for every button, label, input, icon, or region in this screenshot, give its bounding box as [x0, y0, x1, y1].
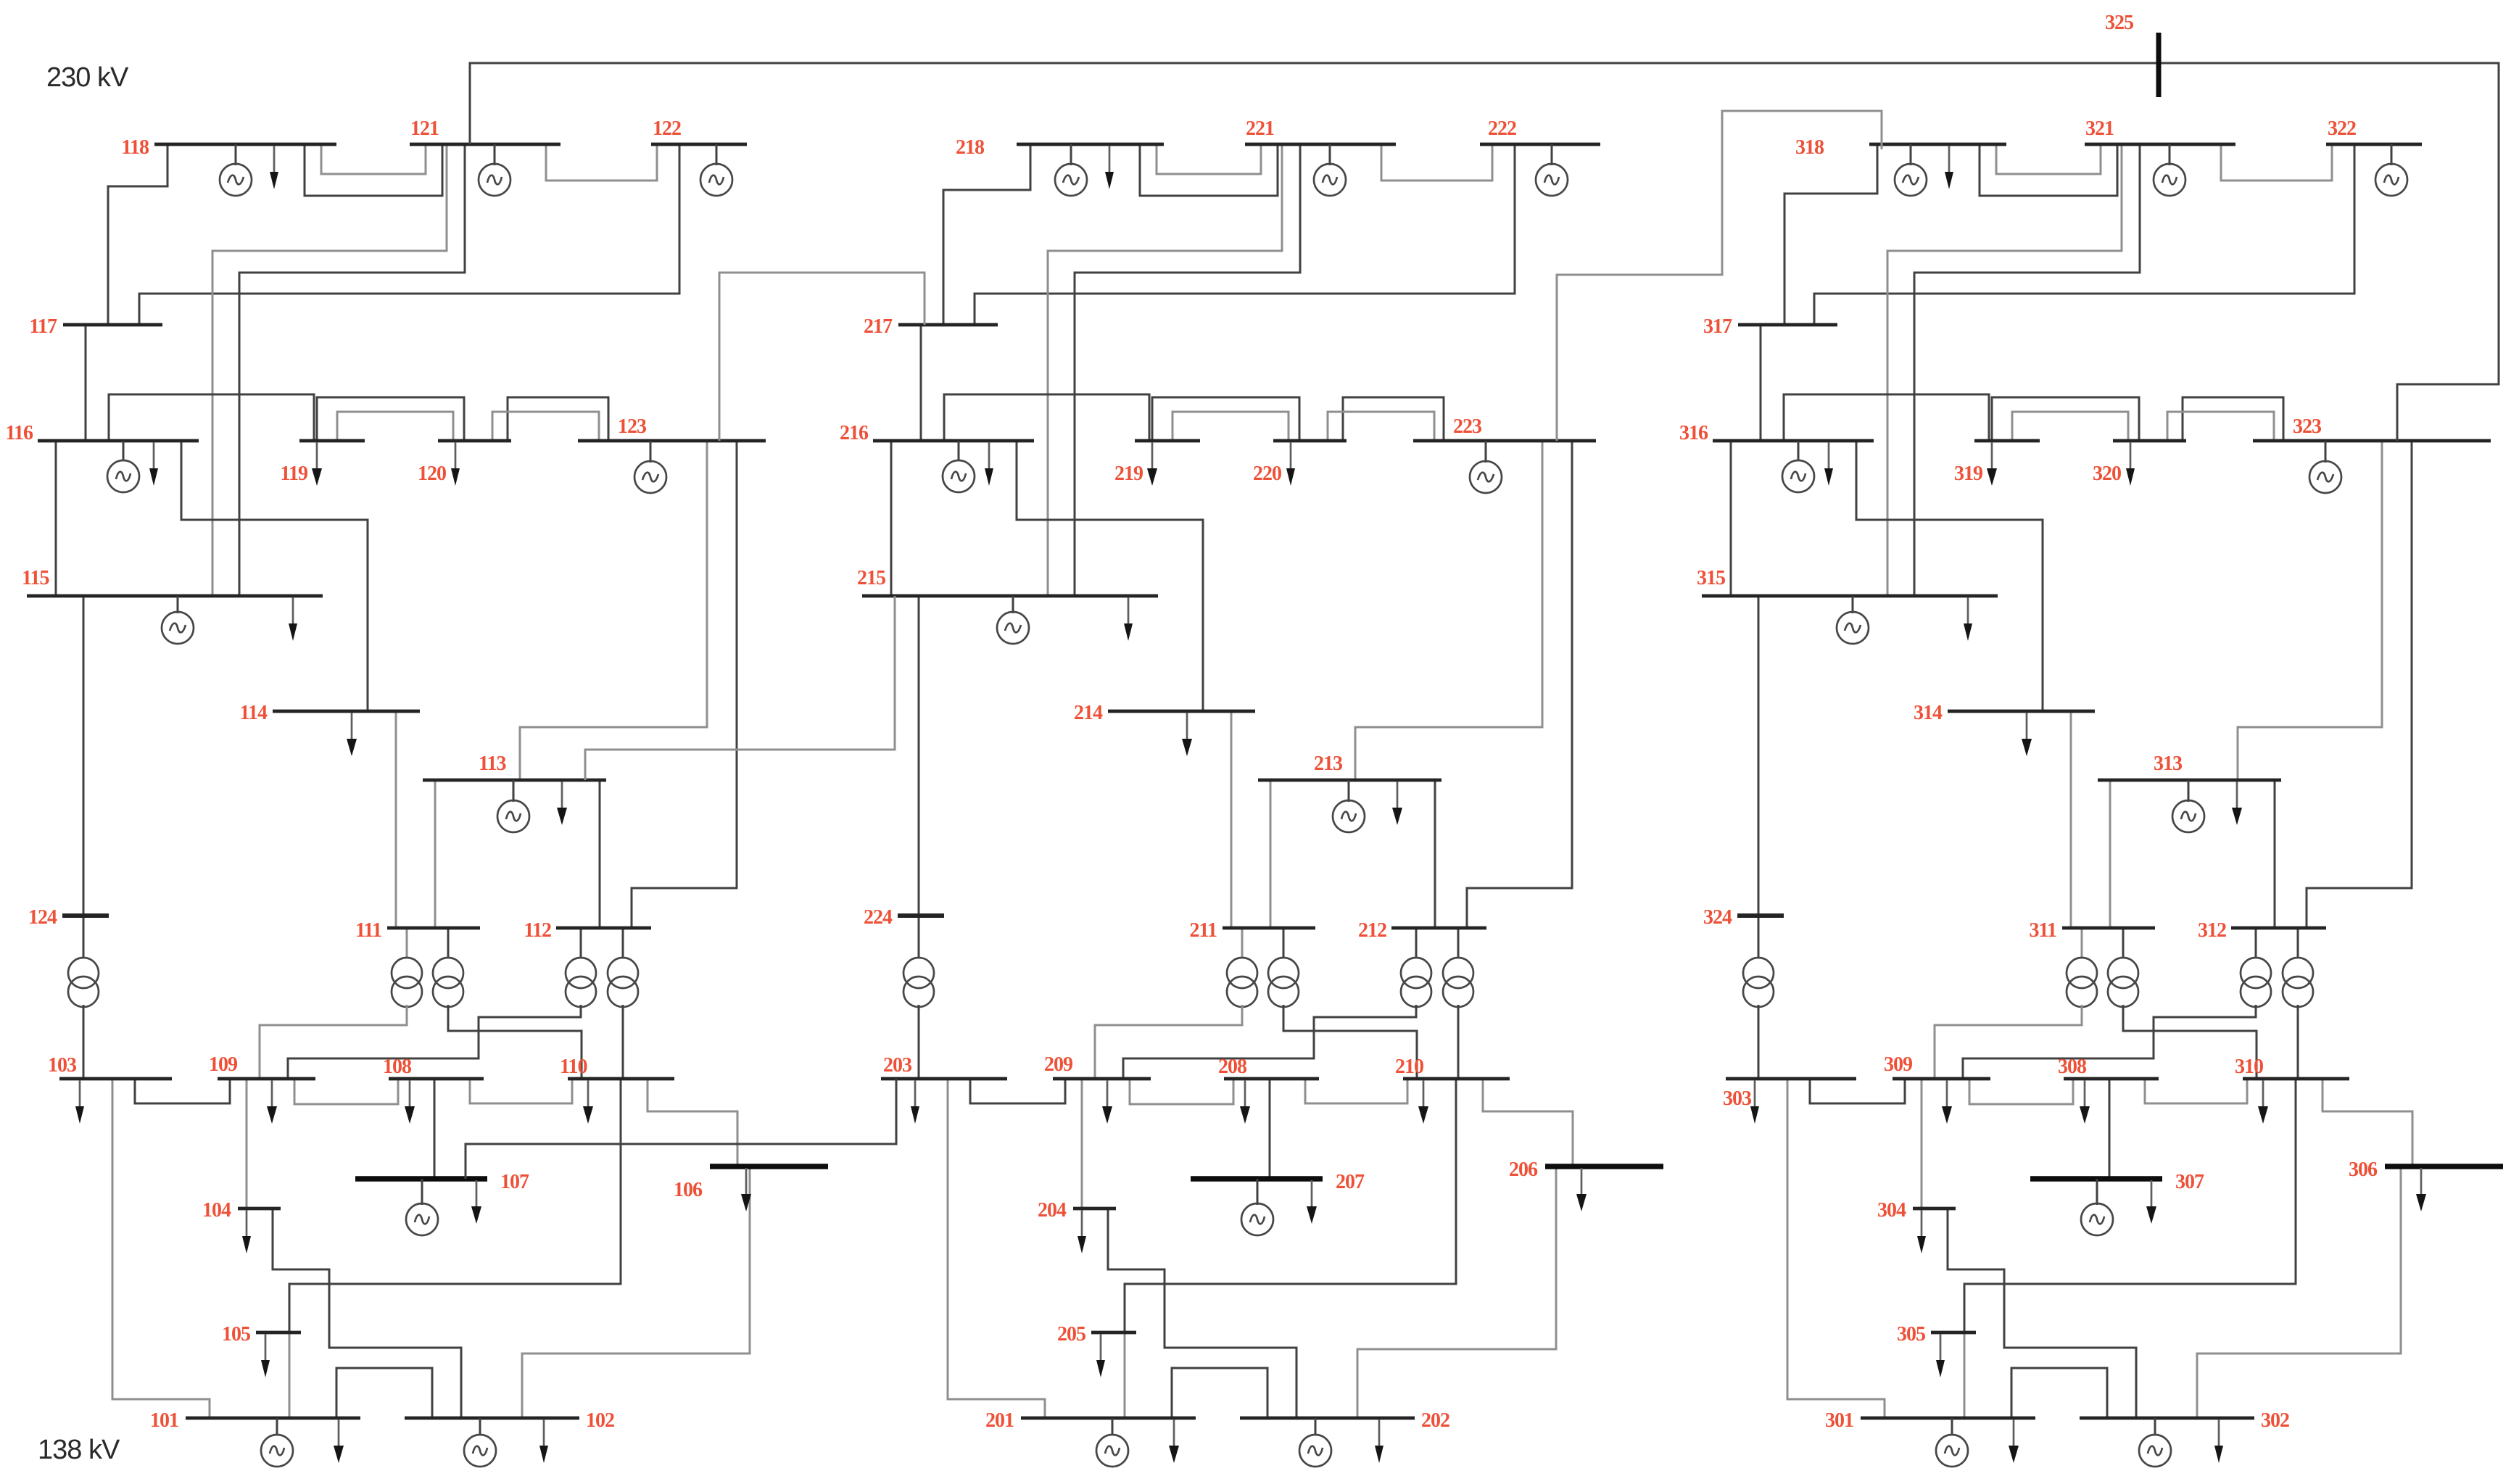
- bus 111: [355, 919, 480, 942]
- transformer 210-212: [1443, 928, 1473, 1079]
- svg-text:215: 215: [857, 567, 885, 589]
- load at bus 219: [1147, 442, 1157, 486]
- transformer 109-112: [288, 928, 596, 1079]
- bus 306: [2349, 1158, 2503, 1181]
- wire 217-222: [975, 144, 1515, 325]
- load at bus 315: [1964, 597, 1972, 641]
- bus 207: [1191, 1171, 1365, 1193]
- svg-text:230 kV: 230 kV: [46, 62, 129, 93]
- wire 217-218: [943, 144, 1030, 325]
- svg-text:115: 115: [22, 567, 49, 589]
- svg-text:308: 308: [2058, 1056, 2087, 1078]
- svg-text:116: 116: [6, 422, 33, 444]
- svg-text:207: 207: [1336, 1171, 1365, 1193]
- svg-text:202: 202: [1421, 1409, 1449, 1432]
- generator at bus 215: [997, 596, 1029, 644]
- wire 120-123 circuit 1: [508, 397, 608, 441]
- svg-text:302: 302: [2261, 1409, 2289, 1432]
- transformer 209-212: [1123, 928, 1431, 1079]
- wire 101-103: [112, 1079, 210, 1418]
- wire 111-113: [434, 780, 437, 928]
- load at bus 107: [471, 1180, 481, 1224]
- load at bus 102: [539, 1419, 548, 1463]
- wire 119-120 circuit 2: [337, 412, 453, 441]
- svg-text:123: 123: [618, 415, 647, 438]
- svg-text:211: 211: [1190, 919, 1217, 942]
- generator at bus 302: [2139, 1418, 2171, 1467]
- wire 305-310: [1964, 1079, 2296, 1332]
- transformer 309-312: [1963, 928, 2271, 1079]
- svg-text:208: 208: [1218, 1056, 1247, 1078]
- wire 201-203: [948, 1079, 1045, 1418]
- wire 213-223: [1355, 441, 1542, 780]
- bus 122: [651, 117, 747, 144]
- bus 114: [240, 702, 420, 724]
- wire 103-109: [135, 1079, 230, 1103]
- svg-text:321: 321: [2085, 117, 2114, 140]
- wire 117-122: [139, 144, 679, 325]
- tie line 123-217: [719, 273, 925, 441]
- bus 217: [864, 315, 998, 338]
- svg-text:324: 324: [1703, 906, 1732, 929]
- wire 105-110: [289, 1079, 621, 1332]
- generator at bus 101: [261, 1418, 293, 1467]
- wire 318-321 circuit 2: [1980, 144, 2117, 196]
- svg-text:108: 108: [383, 1056, 412, 1078]
- generator at bus 107: [406, 1179, 438, 1235]
- wire 304-309: [1921, 1079, 1923, 1209]
- load at bus 318: [1945, 146, 1953, 189]
- wire 102-104: [273, 1209, 461, 1418]
- wire 308-310: [2145, 1079, 2247, 1103]
- bus 214: [1074, 702, 1255, 724]
- bus 104: [202, 1199, 281, 1222]
- load at bus 207: [1307, 1180, 1317, 1224]
- load at bus 215: [1124, 597, 1133, 641]
- wire 318-321 circuit 1: [1996, 144, 2101, 174]
- svg-text:111: 111: [355, 919, 381, 942]
- load at bus 301: [2009, 1419, 2019, 1463]
- generator at bus 207: [1241, 1179, 1273, 1235]
- wire 320-323 circuit 1: [2183, 397, 2283, 441]
- wire 101-102: [336, 1368, 432, 1418]
- svg-text:311: 311: [2030, 919, 2056, 942]
- wire 216-217: [920, 325, 922, 441]
- bus 109: [209, 1053, 315, 1079]
- tie line 107-203: [466, 1079, 896, 1179]
- wire 301-303: [1787, 1079, 1885, 1418]
- bus 210: [1395, 1056, 1510, 1079]
- bus 211: [1190, 919, 1315, 942]
- svg-text:206: 206: [1509, 1158, 1538, 1181]
- bus 219: [1114, 441, 1200, 485]
- load at bus 220: [1286, 442, 1295, 486]
- wire 107-108: [434, 1079, 436, 1179]
- wire 219-220 circuit 1: [1152, 397, 1299, 441]
- wire 308-309: [1969, 1079, 2073, 1104]
- bus 303: [1723, 1079, 1856, 1110]
- bus 220: [1253, 441, 1347, 485]
- bus 106: [674, 1166, 828, 1201]
- wire 301-305: [1964, 1332, 1966, 1418]
- wire 315-324: [1758, 596, 1760, 916]
- load at bus 101: [334, 1419, 344, 1463]
- load at bus 303: [1750, 1080, 1759, 1124]
- bus 315: [1697, 567, 1998, 596]
- wire 115-124: [83, 596, 85, 916]
- wire 303-309: [1810, 1079, 1905, 1103]
- transformer 309-311: [1935, 928, 2097, 1079]
- wire 307-308: [2109, 1079, 2111, 1179]
- bus 208: [1218, 1056, 1319, 1079]
- svg-text:217: 217: [864, 315, 893, 338]
- wire 208-210: [1305, 1079, 1407, 1103]
- wire 201-202: [1172, 1368, 1267, 1418]
- wire 215-224: [918, 596, 920, 916]
- svg-text:204: 204: [1038, 1199, 1067, 1222]
- load at bus 115: [289, 597, 297, 641]
- bus 301: [1825, 1409, 2035, 1432]
- bus 320: [2093, 441, 2186, 485]
- transformer 203-224: [903, 916, 934, 1079]
- bus 317: [1703, 315, 1837, 338]
- svg-text:214: 214: [1074, 702, 1103, 724]
- svg-text:117: 117: [30, 315, 57, 338]
- wire 219-220 circuit 2: [1172, 412, 1289, 441]
- generator at bus 118: [220, 144, 252, 196]
- tie line 223-318: [1557, 111, 1882, 441]
- bus 310: [2235, 1056, 2349, 1079]
- load at bus 108: [405, 1080, 415, 1124]
- svg-text:113: 113: [479, 753, 506, 775]
- svg-text:210: 210: [1395, 1056, 1423, 1078]
- generator at bus 318: [1895, 144, 1927, 196]
- wire 319-320 circuit 1: [1992, 397, 2139, 441]
- load at bus 302: [2214, 1419, 2223, 1463]
- svg-text:213: 213: [1314, 753, 1343, 775]
- wire 117-118: [108, 144, 167, 325]
- svg-text:314: 314: [1914, 702, 1943, 724]
- wire 206-210: [1483, 1079, 1573, 1166]
- bus 102: [405, 1409, 614, 1432]
- bus 213: [1258, 753, 1442, 780]
- generator at bus 323: [2309, 441, 2341, 493]
- svg-text:105: 105: [222, 1323, 250, 1346]
- wire 114-116: [181, 441, 368, 711]
- wire 112-113: [599, 780, 601, 928]
- svg-text:205: 205: [1057, 1323, 1085, 1346]
- wire 116-117: [85, 325, 87, 441]
- wire 302-306: [2197, 1166, 2401, 1418]
- bus 113: [423, 753, 606, 780]
- generator at bus 102: [464, 1418, 496, 1467]
- bus 119: [281, 441, 365, 485]
- bus 323: [2253, 415, 2491, 441]
- bus 110: [560, 1056, 674, 1079]
- wire 202-206: [1357, 1166, 1556, 1418]
- svg-text:110: 110: [560, 1056, 587, 1078]
- wire 108-109: [294, 1079, 398, 1104]
- svg-text:221: 221: [1246, 117, 1274, 140]
- generator at bus 201: [1096, 1418, 1128, 1467]
- bus 222: [1480, 117, 1600, 144]
- load at bus 120: [451, 442, 460, 486]
- svg-text:222: 222: [1488, 117, 1516, 140]
- load at bus 218: [1105, 146, 1114, 189]
- transformer 110-112: [608, 928, 638, 1079]
- bus 105: [222, 1323, 301, 1346]
- load at bus 320: [2126, 442, 2135, 486]
- svg-text:107: 107: [500, 1171, 529, 1193]
- wire 102-106: [522, 1166, 750, 1418]
- generator at bus 218: [1055, 144, 1087, 196]
- load at bus 319: [1987, 442, 1997, 486]
- bus 223: [1413, 415, 1596, 441]
- bus 224: [864, 906, 944, 929]
- svg-text:120: 120: [418, 463, 446, 485]
- transformer 310-311: [2108, 928, 2257, 1079]
- bus 309: [1884, 1053, 1990, 1079]
- svg-text:114: 114: [240, 702, 268, 724]
- wire 215-221 circuit 2: [1075, 144, 1300, 596]
- load at bus 204: [1077, 1210, 1086, 1253]
- load at bus 114: [347, 713, 357, 756]
- bus 307: [2030, 1171, 2204, 1193]
- load at bus 313: [2232, 782, 2242, 825]
- generator at bus 122: [700, 144, 732, 196]
- wire 306-310: [2322, 1079, 2412, 1166]
- svg-text:301: 301: [1825, 1409, 1853, 1432]
- generator at bus 301: [1936, 1418, 1968, 1467]
- wire 208-209: [1130, 1079, 1233, 1104]
- generator at bus 121: [479, 144, 510, 196]
- bus 324: [1703, 906, 1784, 929]
- transformer 310-312: [2283, 928, 2313, 1079]
- wire 112-123: [632, 441, 737, 928]
- svg-text:304: 304: [1877, 1199, 1906, 1222]
- bus 316: [1679, 422, 1874, 444]
- svg-text:122: 122: [653, 117, 681, 140]
- load at bus 310: [2258, 1080, 2268, 1124]
- load at bus 216: [985, 442, 993, 486]
- wire 205-210: [1125, 1079, 1456, 1332]
- wire 221-222: [1381, 144, 1492, 181]
- svg-text:118: 118: [122, 136, 149, 159]
- wire 302-304: [1948, 1209, 2136, 1418]
- svg-text:316: 316: [1679, 422, 1708, 444]
- bus 322: [2326, 117, 2422, 144]
- transformer 110-111: [433, 928, 582, 1079]
- wire 312-313: [2274, 780, 2276, 928]
- bus 313: [2098, 753, 2281, 780]
- wire 108-110: [470, 1079, 572, 1103]
- generator at bus 115: [162, 596, 194, 644]
- svg-text:305: 305: [1897, 1323, 1925, 1346]
- load at bus 308: [2080, 1080, 2090, 1124]
- svg-text:106: 106: [674, 1179, 703, 1201]
- load at bus 113: [557, 782, 567, 825]
- svg-text:312: 312: [2198, 919, 2226, 942]
- wire 203-209: [970, 1079, 1065, 1103]
- svg-text:119: 119: [281, 463, 307, 485]
- bus 103: [48, 1054, 172, 1079]
- wire 315-316: [1730, 441, 1732, 596]
- wire 316-319: [1784, 394, 1989, 441]
- load at bus 109: [267, 1080, 277, 1124]
- load at bus 314: [2022, 713, 2032, 756]
- svg-text:104: 104: [202, 1199, 231, 1222]
- load at bus 105: [261, 1334, 270, 1377]
- wire 211-214: [1230, 711, 1233, 928]
- svg-text:313: 313: [2154, 753, 2183, 775]
- load at bus 213: [1392, 782, 1402, 825]
- wire 315-321 circuit 2: [1914, 144, 2140, 596]
- bus 305: [1897, 1323, 1976, 1346]
- wire 104-109: [246, 1079, 248, 1209]
- bus 302: [2080, 1409, 2289, 1432]
- bus 123: [578, 415, 766, 441]
- bus 203: [881, 1054, 1007, 1079]
- wire 118-121 circuit 1: [321, 144, 426, 174]
- wire 118-121 circuit 2: [305, 144, 442, 196]
- svg-text:121: 121: [410, 117, 439, 140]
- bus 312: [2198, 919, 2326, 942]
- load at bus 201: [1169, 1419, 1179, 1463]
- wire 314-316: [1856, 441, 2043, 711]
- bus 121: [410, 117, 561, 144]
- tie line 113-215: [585, 596, 895, 780]
- bus 221: [1245, 117, 1396, 144]
- load at bus 119: [312, 442, 322, 486]
- svg-text:101: 101: [150, 1409, 178, 1432]
- wire 121-122: [546, 144, 657, 181]
- svg-text:212: 212: [1358, 919, 1386, 942]
- bus 325: [2105, 12, 2159, 97]
- load at bus 202: [1375, 1419, 1383, 1463]
- bus 205: [1057, 1323, 1136, 1346]
- svg-text:223: 223: [1453, 415, 1482, 438]
- wire 218-221 circuit 2: [1140, 144, 1278, 196]
- generator at bus 223: [1470, 441, 1502, 493]
- wire 113-123: [520, 441, 707, 780]
- wire 315-321 circuit 1: [1887, 144, 2122, 596]
- generator at bus 113: [497, 780, 529, 832]
- wire 220-223 circuit 2: [1328, 412, 1434, 441]
- svg-text:216: 216: [840, 422, 869, 444]
- load at bus 309: [1942, 1080, 1952, 1124]
- wire 115-121 circuit 2: [239, 144, 465, 596]
- generator at bus 213: [1333, 780, 1365, 832]
- load at bus 118: [270, 146, 278, 189]
- wire 317-322: [1814, 144, 2354, 325]
- wire 106-110: [648, 1079, 737, 1166]
- wire 216-219: [944, 394, 1149, 441]
- svg-text:201: 201: [985, 1409, 1014, 1432]
- bus 308: [2058, 1056, 2159, 1079]
- generator at bus 123: [634, 441, 666, 493]
- generator at bus 116: [107, 441, 139, 492]
- wire 207-208: [1269, 1079, 1271, 1179]
- load at bus 104: [242, 1210, 251, 1253]
- svg-text:309: 309: [1884, 1053, 1912, 1076]
- svg-text:306: 306: [2349, 1158, 2378, 1181]
- svg-text:224: 224: [864, 906, 893, 929]
- bus 321: [2085, 117, 2235, 144]
- bus 107: [355, 1171, 529, 1193]
- wire 212-213: [1434, 780, 1436, 928]
- generator at bus 221: [1314, 144, 1346, 196]
- svg-text:319: 319: [1954, 463, 1982, 485]
- load at bus 103: [75, 1080, 84, 1124]
- bus 204: [1038, 1199, 1116, 1222]
- svg-text:325: 325: [2105, 12, 2133, 34]
- wire 311-313: [2109, 780, 2111, 928]
- wire 313-323: [2238, 441, 2382, 780]
- wire 211-213: [1270, 780, 1272, 928]
- load at bus 206: [1576, 1168, 1587, 1211]
- wire 119-120 circuit 1: [317, 397, 464, 441]
- load at bus 214: [1182, 713, 1192, 756]
- bus 319: [1954, 441, 2040, 485]
- bus 209: [1044, 1053, 1151, 1079]
- load at bus 307: [2146, 1180, 2156, 1224]
- load at bus 203: [911, 1080, 919, 1124]
- wire 301-302: [2011, 1368, 2107, 1418]
- transformer 109-111: [260, 928, 422, 1079]
- bus 212: [1358, 919, 1486, 942]
- svg-text:109: 109: [209, 1053, 237, 1076]
- svg-text:303: 303: [1723, 1087, 1752, 1110]
- wire 316-317: [1760, 325, 1762, 441]
- wire 317-318: [1784, 144, 1877, 325]
- generator at bus 222: [1536, 144, 1568, 196]
- transformer 303-324: [1743, 916, 1774, 1079]
- wire 120-123 circuit 2: [492, 412, 599, 441]
- bus 115: [22, 567, 323, 596]
- svg-text:307: 307: [2175, 1171, 2204, 1193]
- svg-text:138 kV: 138 kV: [38, 1435, 120, 1465]
- wire 212-223: [1467, 441, 1572, 928]
- generator at bus 315: [1837, 596, 1869, 644]
- transformer 210-211: [1268, 928, 1417, 1079]
- svg-text:102: 102: [586, 1409, 614, 1432]
- svg-text:310: 310: [2235, 1056, 2263, 1078]
- load at bus 316: [1824, 442, 1833, 486]
- bus 108: [383, 1056, 484, 1079]
- bus 318: [1795, 136, 2006, 159]
- svg-text:317: 317: [1703, 315, 1732, 338]
- wire 115-116: [55, 441, 57, 596]
- generator at bus 202: [1299, 1418, 1331, 1467]
- transformer 103-124: [68, 916, 99, 1079]
- bus 124: [28, 906, 109, 929]
- svg-text:218: 218: [956, 136, 985, 159]
- load at bus 306: [2416, 1168, 2426, 1211]
- load at bus 304: [1917, 1210, 1926, 1253]
- wire 312-323: [2307, 441, 2412, 928]
- bus 215: [857, 567, 1158, 596]
- wire 116-119: [109, 394, 314, 441]
- bus 314: [1914, 702, 2095, 724]
- generator at bus 307: [2081, 1179, 2113, 1235]
- wire 215-221 circuit 1: [1048, 144, 1282, 596]
- load at bus 110: [583, 1080, 593, 1124]
- bus 120: [418, 441, 511, 485]
- bus 101: [150, 1409, 360, 1432]
- bus 218: [956, 136, 1164, 159]
- wire 319-320 circuit 2: [2012, 412, 2128, 441]
- wire 321-322: [2221, 144, 2332, 181]
